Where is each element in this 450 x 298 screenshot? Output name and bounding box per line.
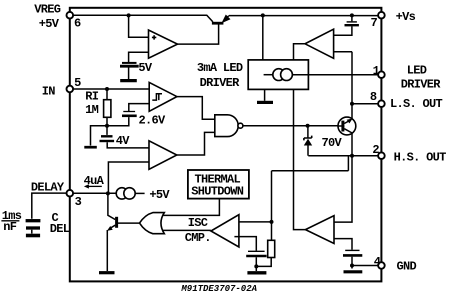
svg-text:GND: GND [397,260,417,274]
svg-text:4V: 4V [116,134,131,148]
svg-text:3: 3 [75,195,82,209]
svg-text:CMP.: CMP. [185,231,211,245]
svg-text:1: 1 [373,64,380,78]
svg-text:IN: IN [42,84,56,98]
svg-text:+5V: +5V [149,188,170,202]
svg-text:1M: 1M [85,103,99,117]
svg-text:5: 5 [74,76,81,90]
svg-text:ISC: ISC [188,216,208,230]
svg-text:L.S. OUT: L.S. OUT [390,97,443,111]
svg-text:SHUTDOWN: SHUTDOWN [191,184,244,198]
svg-text:nF: nF [3,220,17,234]
svg-text:2.6V: 2.6V [139,113,167,127]
svg-text:LED: LED [407,63,427,77]
svg-text:8: 8 [370,90,377,104]
svg-text:RI: RI [85,89,99,103]
svg-text:DRIVER: DRIVER [200,76,241,90]
svg-text:+Vs: +Vs [396,10,416,24]
svg-text:5V: 5V [138,61,153,75]
svg-text:DRIVER: DRIVER [401,77,442,91]
svg-text:70V: 70V [322,136,343,150]
svg-text:DELAY: DELAY [31,181,65,195]
svg-text:4: 4 [374,255,381,269]
svg-text:M91TDE3707-02A: M91TDE3707-02A [180,284,257,294]
svg-text:6: 6 [74,17,81,31]
svg-text:7: 7 [371,16,378,30]
svg-text:3mA LED: 3mA LED [197,61,243,75]
svg-text:H.S. OUT: H.S. OUT [394,151,447,165]
svg-text:2: 2 [372,143,379,157]
svg-text:+5V: +5V [39,17,60,31]
svg-text:VREG: VREG [34,3,61,17]
svg-text:DEL: DEL [50,222,70,236]
